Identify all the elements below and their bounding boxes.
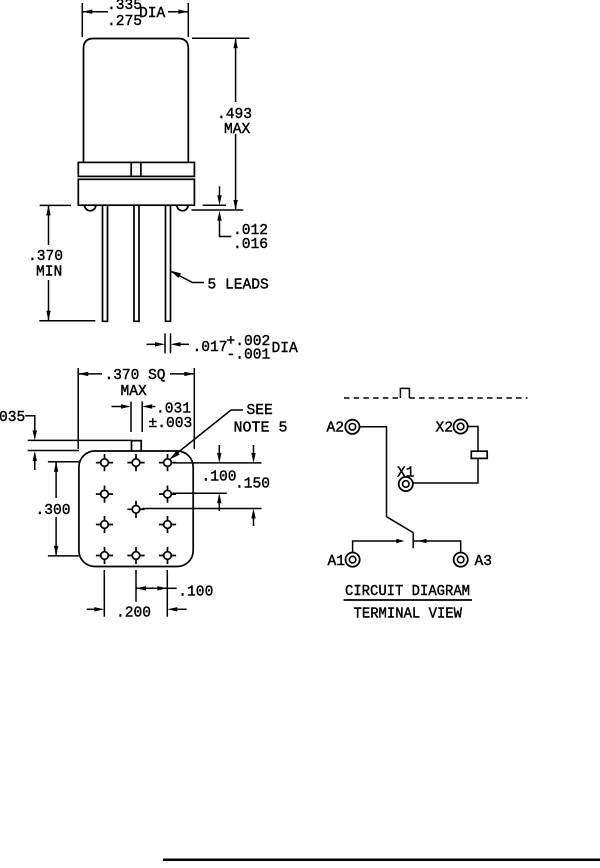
bottom view case outline xyxy=(79,451,193,567)
terminal A2 xyxy=(327,420,360,437)
svg-text:MAX: MAX xyxy=(224,122,251,138)
circuit case outline dashed xyxy=(344,388,528,398)
lead 3 xyxy=(166,205,171,321)
dimension .031 ±.003 xyxy=(112,402,193,433)
dimension .150 right xyxy=(142,445,270,526)
dimension .017 +.002 -.001 DIA xyxy=(147,333,299,363)
armature diagonal xyxy=(387,517,414,533)
svg-text:.017: .017 xyxy=(193,340,228,356)
coil K1 xyxy=(471,451,487,458)
svg-text:DIA: DIA xyxy=(272,341,299,357)
terminal pin center xyxy=(127,501,144,518)
svg-text:.100: .100 xyxy=(202,470,237,486)
dimension .200 bottom xyxy=(87,570,187,622)
terminal pin r1c1 xyxy=(96,454,113,471)
svg-text:.100: .100 xyxy=(178,585,213,601)
svg-text:.200: .200 xyxy=(116,606,151,622)
terminal pin r2c3 xyxy=(159,486,176,503)
armature contact bar xyxy=(412,532,414,548)
svg-text:.275: .275 xyxy=(107,14,142,30)
wire A3 contact with arrowhead xyxy=(414,539,461,553)
terminal pin r4c3 xyxy=(159,516,176,533)
dimension .493 MAX xyxy=(192,38,253,210)
dimension .370 MIN xyxy=(28,205,95,320)
terminal A3 xyxy=(454,553,492,571)
standoff bump right xyxy=(177,205,188,211)
svg-text:MIN: MIN xyxy=(36,265,62,281)
terminal pin r5c3 xyxy=(159,547,176,564)
svg-text:DIA: DIA xyxy=(139,6,166,22)
caption CIRCUIT DIAGRAM xyxy=(344,584,472,600)
svg-text:A2: A2 xyxy=(327,421,345,437)
svg-text:-.001: -.001 xyxy=(227,348,271,364)
dimension .335 / .275 DIA xyxy=(82,0,188,37)
svg-text:035: 035 xyxy=(0,410,25,426)
svg-text:.335: .335 xyxy=(107,0,142,14)
leader 5 LEADS xyxy=(170,271,269,294)
dimension .100 right xyxy=(173,445,262,511)
terminal A1 xyxy=(328,553,360,571)
svg-text:CIRCUIT DIAGRAM: CIRCUIT DIAGRAM xyxy=(345,584,470,600)
lead 2 xyxy=(134,205,139,321)
can header xyxy=(78,179,194,205)
svg-text:A3: A3 xyxy=(475,554,493,570)
dimension .370 SQ MAX xyxy=(78,368,194,449)
svg-text:MAX: MAX xyxy=(121,384,148,400)
svg-text:TERMINAL VIEW: TERMINAL VIEW xyxy=(354,607,463,623)
svg-text:X1: X1 xyxy=(397,466,415,482)
dimension .100 bottom xyxy=(136,570,213,617)
svg-text:.016: .016 xyxy=(233,237,268,253)
dimension .300 xyxy=(36,462,79,556)
svg-text:.370 SQ: .370 SQ xyxy=(105,368,166,384)
svg-text:±.003: ±.003 xyxy=(149,416,193,432)
terminal pin r5c2 xyxy=(127,547,144,564)
dimension .035 xyxy=(0,410,132,470)
wire X2 to coil xyxy=(467,427,478,452)
svg-text:SEE: SEE xyxy=(247,403,273,419)
bottom rule xyxy=(163,859,600,862)
terminal X2 xyxy=(436,419,468,436)
caption TERMINAL VIEW xyxy=(354,607,463,623)
can body outline xyxy=(84,39,189,163)
terminal X1 xyxy=(397,466,415,492)
svg-text:A1: A1 xyxy=(328,554,346,570)
svg-text:.370: .370 xyxy=(28,249,63,265)
standoff bump left xyxy=(85,205,96,211)
terminal pin r4c1 xyxy=(96,516,113,533)
wire coil to X1 xyxy=(413,458,478,483)
svg-text:.150: .150 xyxy=(235,477,270,493)
svg-text:.493: .493 xyxy=(217,107,252,123)
can flange xyxy=(78,162,194,176)
lead 1 xyxy=(103,205,108,321)
leader SEE NOTE 5 xyxy=(170,403,288,460)
dimension .012 / .016 xyxy=(203,186,268,253)
svg-text:NOTE 5: NOTE 5 xyxy=(234,421,288,437)
terminal pin r1c2 xyxy=(127,454,144,471)
svg-text:5 LEADS: 5 LEADS xyxy=(208,278,270,294)
index tab xyxy=(132,441,142,451)
terminal pin r1c3 xyxy=(159,454,176,471)
terminal pin r5c1 xyxy=(96,547,113,564)
wire A1 contact with arrowhead xyxy=(353,539,405,553)
svg-text:X2: X2 xyxy=(436,421,454,437)
wire A2 to armature xyxy=(359,427,386,517)
terminal pin r2c1 xyxy=(96,486,113,503)
svg-text:.300: .300 xyxy=(36,503,71,519)
